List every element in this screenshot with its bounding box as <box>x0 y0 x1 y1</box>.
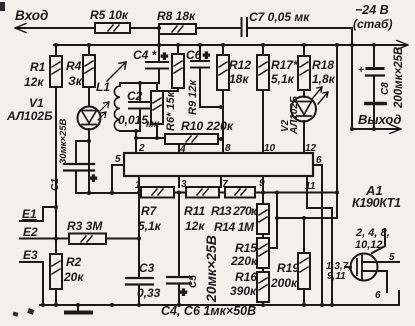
svg-text:R16: R16 <box>235 270 257 284</box>
svg-text:Вход: Вход <box>15 8 48 23</box>
resistor R7 <box>141 187 174 198</box>
svg-text:5,1к: 5,1к <box>271 72 295 86</box>
resistor R15 <box>257 238 269 268</box>
svg-text:6: 6 <box>316 155 322 166</box>
wire pin11 vertical <box>306 176 308 208</box>
svg-text:R7: R7 <box>141 204 158 218</box>
svg-text:2: 2 <box>138 143 145 154</box>
svg-text:5: 5 <box>389 252 395 263</box>
svg-text:С4 *: С4 * <box>133 48 158 62</box>
wire L1 top <box>120 83 159 86</box>
svg-text:6: 6 <box>375 290 381 301</box>
capacitor C6 <box>199 45 201 61</box>
svg-text:8: 8 <box>225 143 231 154</box>
wire bottom resistor row <box>76 192 338 195</box>
resistor R13 <box>225 187 255 198</box>
svg-text:1: 1 <box>135 180 141 191</box>
resistor R9 <box>177 45 179 54</box>
wire R1 to R2 <box>55 87 57 254</box>
svg-text:V1: V1 <box>29 96 44 110</box>
resistor R11 <box>186 187 219 198</box>
ground <box>77 305 79 311</box>
wire L1 bottom to pin2 <box>120 131 140 153</box>
svg-text:С8: С8 <box>380 82 391 95</box>
wire input line <box>16 27 241 29</box>
wire v from row to R15 tap <box>276 193 278 249</box>
svg-text:R15: R15 <box>235 241 257 255</box>
svg-text:200к: 200к <box>270 276 298 290</box>
node E1 lead <box>20 207 56 221</box>
resistor R18 <box>303 45 305 56</box>
svg-text:С2: С2 <box>127 89 143 103</box>
svg-text:30мк×25В: 30мк×25В <box>58 118 69 164</box>
svg-text:R1: R1 <box>30 60 46 74</box>
svg-text:R3 3М: R3 3М <box>67 219 103 233</box>
svg-text:390к: 390к <box>230 284 257 298</box>
transistor legend: gate bar <box>356 259 358 275</box>
svg-text:0,015: 0,015 <box>118 113 148 127</box>
wire V2 cathode to pin12 <box>303 121 305 153</box>
resistor R3 <box>69 234 106 245</box>
svg-text:12к: 12к <box>24 75 44 89</box>
svg-text:R12: R12 <box>229 58 251 72</box>
resistor R12 <box>222 45 224 55</box>
capacitor C4 <box>158 28 160 62</box>
svg-text:R11: R11 <box>184 204 205 218</box>
scan artifacts <box>0 2 35 317</box>
op-amp U1 : IC A1 box <box>124 153 313 176</box>
svg-text:1,8к: 1,8к <box>312 72 336 86</box>
transistor legend: circle <box>351 254 378 281</box>
svg-text:С4, С6 1мк×50В: С4, С6 1мк×50В <box>161 304 256 318</box>
wire -24V rail <box>54 44 407 46</box>
svg-text:3: 3 <box>181 179 187 190</box>
svg-text:+: + <box>180 287 187 299</box>
svg-text:R17*: R17* <box>271 58 299 72</box>
wire Выход line <box>352 128 400 130</box>
wire R18 to V2 <box>303 90 305 97</box>
capacitor C1 <box>76 141 89 164</box>
svg-text:20мк×25В: 20мк×25В <box>203 235 219 303</box>
capacitor C8 <box>373 45 375 67</box>
svg-text:220к: 220к <box>230 254 258 268</box>
LED V1 arrows <box>98 102 109 120</box>
svg-text:С6: С6 <box>186 48 202 62</box>
svg-text:12к: 12к <box>185 219 205 233</box>
resistor R14 <box>257 204 269 234</box>
wire R17 bottom to pin10 <box>262 90 264 153</box>
wire R4 to V1 <box>88 87 90 106</box>
svg-text:R18: R18 <box>312 58 334 72</box>
svg-text:+: + <box>203 50 210 62</box>
svg-text:9: 9 <box>259 178 265 189</box>
svg-text:+: + <box>161 51 168 63</box>
capacitor C3 <box>126 278 153 285</box>
wire rail arrowhead <box>397 41 408 50</box>
svg-text:АЛ102Б: АЛ102Б <box>289 96 300 135</box>
svg-text:18к: 18к <box>229 72 249 86</box>
wire h2 pin11 to drop <box>307 208 332 305</box>
svg-text:С3: С3 <box>139 261 155 275</box>
transistor legend: drain lead 5 <box>362 261 399 263</box>
svg-text:R10 220к: R10 220к <box>181 119 234 133</box>
svg-text:R6* 15к: R6* 15к <box>165 90 177 131</box>
svg-text:9,11: 9,11 <box>327 271 346 282</box>
svg-text:Выход: Выход <box>358 112 401 127</box>
resistor R8 <box>159 24 196 34</box>
svg-text:+: + <box>90 173 97 185</box>
wire pin7 stub <box>220 176 222 187</box>
LED V2 arrows <box>312 87 328 104</box>
svg-text:10,12: 10,12 <box>355 239 383 251</box>
resistor R19 <box>303 218 305 253</box>
svg-text:20к: 20к <box>63 270 84 284</box>
wire R14-R15 junction stub <box>263 234 277 248</box>
wire pin9 vertical <box>262 176 264 204</box>
svg-text:(стаб): (стаб) <box>353 17 392 31</box>
transistor legend: channel bar <box>361 255 363 279</box>
svg-text:Е1: Е1 <box>22 207 37 221</box>
wire h3 output bus <box>277 217 337 219</box>
resistor R6 <box>156 83 158 91</box>
resistor R17 <box>262 45 264 55</box>
svg-text:R8 18к: R8 18к <box>157 9 196 23</box>
LED V1 <box>78 107 101 130</box>
svg-text:5: 5 <box>115 154 121 165</box>
wire R10 left line <box>136 137 165 139</box>
svg-text:R2: R2 <box>66 255 82 269</box>
wire ground rail <box>40 291 399 305</box>
inductor L1 <box>114 86 120 131</box>
resistor R5 <box>95 23 130 33</box>
svg-text:С7 0,05 мк: С7 0,05 мк <box>249 10 310 24</box>
node E2 lead <box>20 238 69 240</box>
wire Выход arrowhead <box>390 125 401 134</box>
resistor R1 <box>55 45 57 56</box>
node E3 lead <box>20 262 43 305</box>
resistor R4 <box>88 45 90 55</box>
svg-text:200мк×25В: 200мк×25В <box>393 47 405 109</box>
svg-text:L1: L1 <box>96 80 110 94</box>
resistor R10 <box>165 134 218 144</box>
svg-text:R5 10к: R5 10к <box>90 8 129 22</box>
svg-text:+: + <box>358 65 364 76</box>
wire input arrowhead <box>15 24 26 33</box>
svg-text:R13 270к: R13 270к <box>211 204 258 218</box>
svg-text:С1: С1 <box>50 178 61 191</box>
capacitor C7 <box>242 18 248 36</box>
wire pin4 stub <box>178 144 180 153</box>
transistor legend: gate lead <box>345 266 351 268</box>
resistor R16 <box>262 268 264 272</box>
svg-text:10: 10 <box>264 143 276 154</box>
svg-text:0,33: 0,33 <box>137 286 161 300</box>
transistor legend: top lead to pins bracket <box>372 229 385 253</box>
wire R6 bottom <box>156 124 158 138</box>
svg-text:R14 1М: R14 1М <box>214 220 255 234</box>
svg-text:2, 4, 8,: 2, 4, 8, <box>355 227 390 239</box>
wire pin5 lead <box>112 165 124 193</box>
wire pin6 lead <box>313 165 322 305</box>
svg-text:−24 В: −24 В <box>355 3 389 17</box>
wire v rail drop x337 <box>336 45 338 218</box>
svg-text:К190КТ1: К190КТ1 <box>352 196 401 210</box>
LED V2 <box>291 97 316 122</box>
svg-text:С5: С5 <box>188 275 199 288</box>
wire R9 bottom to R6 top <box>163 88 178 91</box>
svg-text:11: 11 <box>305 181 316 192</box>
svg-text:Зк: Зк <box>68 74 83 88</box>
wire R3 right lead <box>106 238 139 240</box>
svg-text:Е2: Е2 <box>23 225 38 239</box>
svg-text:R9 12к: R9 12к <box>187 79 199 115</box>
svg-text:4: 4 <box>179 144 186 155</box>
svg-text:7: 7 <box>222 179 228 190</box>
svg-text:5,1к: 5,1к <box>138 219 162 233</box>
wire C7 junction drop to rail <box>351 28 353 129</box>
transistor legend: source lead 6 <box>362 271 387 292</box>
wire V1 cathode down <box>88 129 90 193</box>
svg-text:мк: мк <box>146 118 160 130</box>
svg-text:R19: R19 <box>277 261 299 275</box>
svg-text:АЛ102Б: АЛ102Б <box>6 109 53 123</box>
svg-text:R4: R4 <box>66 59 82 73</box>
resistor R2 <box>50 254 62 289</box>
capacitor C5 <box>178 193 180 278</box>
svg-text:Е3: Е3 <box>23 248 38 262</box>
svg-text:12: 12 <box>305 143 317 154</box>
wire R12 bottom to pin8 <box>222 90 224 153</box>
wire pin3 stub <box>178 176 180 187</box>
inductor L1 tuning arrow <box>107 62 126 81</box>
wire pin1 vertical <box>138 176 140 278</box>
capacitor C2 <box>139 83 141 131</box>
